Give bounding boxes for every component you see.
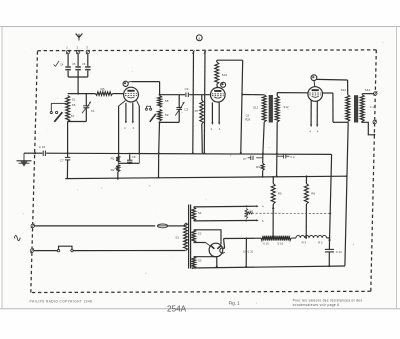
label R2b — [318, 241, 323, 245]
wire terminal1 to C4 — [67, 54, 69, 66]
valve V4 heater loop — [220, 248, 225, 253]
chassis border top (dashed) — [38, 49, 377, 52]
label C15 — [39, 145, 46, 149]
svg-text:C8: C8 — [132, 155, 136, 159]
node IFT1 tap — [241, 94, 243, 96]
svg-text:∿: ∿ — [13, 233, 22, 245]
label S14 — [365, 88, 371, 92]
capacitor C2 arrow — [175, 102, 185, 116]
text 254A (cut by page edge) — [167, 305, 187, 314]
wire antenna feed down — [77, 77, 79, 94]
svg-text:S1: S1 — [175, 236, 179, 240]
wire HT feed 2 — [203, 51, 206, 153]
svg-text:PHILIPS RADIO COPYRIGHT 194: PHILIPS RADIO COPYRIGHT 1948 — [30, 300, 93, 304]
label S6 — [72, 103, 76, 107]
wire mains line 2b — [73, 250, 185, 252]
wire V1 cathode — [119, 101, 126, 157]
node divider left — [245, 237, 247, 239]
wire ground to border — [24, 152, 35, 154]
label S8 — [165, 99, 169, 103]
coil S12 (IFT1 secondary) — [275, 96, 279, 122]
label C14 — [336, 250, 342, 254]
divider resistor R3b-R2b — [291, 235, 327, 238]
wire C3 to V2 grid — [189, 94, 210, 96]
wire R5 bottom — [272, 204, 274, 238]
coil S11 (IFT1 primary) — [262, 95, 266, 122]
svg-text:C7: C7 — [60, 158, 64, 162]
svg-text:C2: C2 — [184, 107, 188, 111]
coil S10 (osc coil) — [215, 62, 219, 84]
valve V2 heater lead b — [218, 103, 220, 124]
label V2 heater b — [219, 127, 221, 131]
wire mains line 1 — [34, 225, 155, 227]
svg-text:S 16: S 16 — [277, 241, 283, 245]
resistor R2 — [116, 165, 119, 172]
ground symbol — [17, 153, 32, 166]
capacitor C14 plates — [325, 249, 334, 252]
capacitor C8 plates — [127, 160, 132, 162]
wire S8/C2 top link — [160, 94, 180, 96]
capacitor C7b tail — [248, 157, 251, 159]
resistor R9 (hum balance) — [245, 208, 248, 218]
wire mains line 2a — [34, 250, 58, 252]
capacitor C2 (tuning) plates — [176, 108, 182, 110]
wire V1 screen — [137, 101, 140, 154]
capacitor C14 top lead — [328, 241, 330, 249]
node antenna-coil junction — [77, 93, 79, 95]
svg-text:S3: S3 — [198, 259, 202, 263]
svg-text:S14: S14 — [365, 88, 371, 92]
AC mains symbol — [13, 233, 22, 245]
label terminal 3 — [86, 46, 88, 50]
wire R5 top — [272, 177, 274, 184]
node R3 on AVC bus — [262, 176, 264, 178]
label V3 heater a — [309, 129, 311, 133]
wire C6 down — [87, 71, 89, 77]
label point 6 — [262, 219, 264, 223]
capacitor C9b tail — [286, 155, 289, 157]
svg-text:S1: S1 — [72, 98, 76, 102]
svg-text:S4: S4 — [198, 211, 202, 215]
label C1 — [91, 109, 95, 113]
svg-text:254A: 254A — [167, 305, 187, 314]
wire heater arrow 6 — [246, 219, 259, 221]
node S11 tail on earth bus — [262, 153, 264, 155]
label S1p — [175, 236, 179, 240]
terminal mains 1 — [31, 224, 35, 228]
switch mains contact b — [71, 249, 73, 251]
label S4 — [198, 211, 202, 215]
coil S8 — [158, 96, 162, 108]
label R1 — [111, 157, 115, 161]
text Fig. 1 — [229, 301, 241, 306]
capacitor C1 arrow — [82, 101, 91, 113]
wire R4 top — [305, 176, 307, 183]
text French note line 1 — [293, 298, 363, 302]
valve V2 (mixer-osc) — [211, 88, 226, 103]
svg-text:R6: R6 — [101, 88, 105, 92]
wire R7 tail — [201, 124, 204, 153]
switch arm S1 — [54, 112, 62, 122]
wire S3 bottom corner — [192, 267, 194, 269]
label R4 — [311, 192, 315, 196]
capacitor C15 plates — [43, 151, 45, 156]
transformer primary S1p — [184, 223, 188, 251]
valve V2 heater arrow a — [211, 122, 213, 125]
label S7 — [71, 114, 75, 118]
label S10 — [222, 73, 228, 77]
antenna symbol — [76, 34, 83, 41]
label C13 — [370, 105, 376, 109]
wire S3 top to cathode — [194, 256, 217, 258]
text French note line 2 — [293, 303, 341, 307]
node S8 top — [159, 94, 161, 96]
valve V2 heater arrow b — [218, 122, 220, 125]
transformer rect-heater winding S3 — [192, 257, 196, 269]
svg-text:S7: S7 — [71, 114, 75, 118]
wire C8 stub right — [130, 154, 140, 164]
svg-text:Fig. 1: Fig. 1 — [229, 301, 241, 306]
capacitor C7b plates — [251, 156, 253, 160]
terminal 2 — [76, 50, 80, 54]
label terminal 1 — [66, 46, 68, 50]
wire S11 tail — [263, 122, 265, 163]
node R4 on AVC bus — [306, 175, 308, 177]
node V1 cathode on earth bus — [118, 152, 120, 154]
svg-text:C6: C6 — [82, 62, 86, 66]
valve V3 — [308, 87, 323, 102]
svg-text:S6: S6 — [72, 103, 76, 107]
svg-text:a: a — [198, 36, 200, 40]
wire heater supply bottom — [194, 220, 247, 222]
wire heater supply top — [194, 205, 247, 208]
valve V1 heater arrow a — [125, 121, 127, 124]
wire tuned circuit 1 bottom — [68, 121, 87, 123]
stray check mark — [54, 61, 60, 66]
arrow HT feed 1 — [192, 50, 195, 54]
chassis border right (dashed) — [371, 50, 377, 291]
label S16 — [277, 241, 283, 245]
valve V3 heater arrow a — [310, 125, 312, 128]
wire C2 bottom — [178, 109, 180, 122]
svg-text:R2: R2 — [111, 168, 115, 172]
wire V3 cap stem — [313, 81, 316, 87]
svg-text:S9: S9 — [165, 113, 169, 117]
label S13 — [341, 88, 347, 92]
svg-text:C1: C1 — [91, 109, 95, 113]
wire S2 bottom to anode 2 — [194, 243, 210, 246]
node R5 on AVC bus — [272, 176, 274, 178]
switch arm S8 — [150, 114, 156, 122]
svg-text:R28: R28 — [245, 118, 251, 122]
node S12 tail on earth bus — [276, 153, 278, 155]
svg-text:S11: S11 — [253, 105, 258, 109]
switch mains contact a — [57, 249, 59, 251]
svg-text:Pour les valeurs des résis: Pour les valeurs des résistances et des — [293, 298, 363, 302]
label C3 — [185, 87, 189, 91]
svg-text:S13: S13 — [341, 88, 347, 92]
node S9 tail on AVC bus — [158, 177, 160, 179]
label R3 — [256, 165, 260, 169]
label R7 — [195, 109, 199, 113]
svg-text:C4: C4 — [60, 63, 64, 67]
svg-text:S10: S10 — [222, 73, 228, 77]
label S12 — [283, 105, 289, 109]
switch wave-band contact a — [50, 111, 52, 113]
node divider-A junction — [329, 239, 331, 241]
switch stub a — [51, 103, 66, 111]
label V3 heater b — [317, 129, 319, 133]
divider winding S15-S16 — [261, 236, 291, 241]
label R9 — [250, 209, 254, 213]
wire V3 cap to S13 — [317, 79, 348, 94]
node earth terminal on border — [34, 152, 36, 154]
label C5 — [72, 62, 76, 66]
node HT feed 2 on earth bus — [203, 152, 205, 154]
label R3b — [302, 241, 307, 245]
svg-text:R7: R7 — [195, 109, 199, 113]
wire S1 tail — [67, 122, 69, 157]
wire S14 bottom L-link — [362, 122, 374, 135]
label C8 — [132, 155, 136, 159]
wire AVC bus — [65, 176, 346, 178]
wire S1 top — [68, 93, 96, 95]
label S9 — [165, 113, 169, 117]
capacitor C9b lead — [277, 155, 283, 157]
node C16 on bottom bus — [245, 266, 247, 268]
svg-text:S8: S8 — [165, 99, 169, 103]
label C4 — [60, 63, 64, 67]
svg-text:R5: R5 — [278, 192, 282, 196]
mechanical link (dashed) — [248, 212, 330, 214]
wire S12 to V3 grid — [277, 93, 308, 96]
switch contact c — [145, 108, 147, 110]
switch contact d — [150, 108, 152, 110]
wire tuned circuit 2 bottom — [160, 121, 180, 123]
valve V2 top cap — [221, 82, 226, 87]
label S15 — [263, 241, 269, 245]
wire earth bus — [46, 153, 331, 154]
valve V1 top cap — [123, 81, 128, 86]
IFT2 core — [354, 95, 358, 122]
wire S9 tail — [159, 122, 160, 177]
coil S9 — [158, 109, 162, 121]
node S14 link on border — [373, 134, 375, 136]
node osc anode on earth bus — [240, 152, 242, 154]
label C9b — [290, 155, 295, 159]
wire S14 top to output terminal — [362, 94, 373, 95]
wire V4 cathode up — [223, 239, 226, 249]
wire V4 cathode stem — [216, 256, 218, 267]
node V1 screen on earth bus — [138, 153, 140, 155]
capacitor C1 (tuning) plates — [83, 106, 89, 108]
label terminal 2 — [76, 46, 78, 50]
coil S1 (aerial coil) — [66, 96, 70, 122]
svg-text:S12: S12 — [283, 105, 289, 109]
wire IFT1 primary top — [242, 94, 264, 96]
svg-text:C 15: C 15 — [39, 145, 46, 149]
wire HT feed 1 — [192, 51, 195, 153]
svg-text:C5: C5 — [72, 62, 76, 66]
label heater b — [132, 126, 134, 130]
wire C2/C3 link — [179, 94, 185, 96]
label R6 — [101, 88, 105, 92]
node A at divider feed — [329, 212, 331, 214]
wire border to C15 — [35, 152, 42, 154]
capacitor C14 bottom lead — [328, 252, 330, 266]
capacitor C8 (cathode bypass) top lead — [129, 154, 131, 160]
valve V1 heater arrow b — [132, 121, 134, 124]
switch stub cd — [146, 106, 150, 108]
svg-text:S 15: S 15 — [263, 241, 269, 245]
wire terminal2 to C5 — [77, 54, 79, 66]
label C2 — [184, 107, 188, 111]
arrow R5 tap — [272, 205, 274, 209]
wire C4 down — [67, 71, 69, 77]
transformer HT winding S2 — [192, 230, 196, 243]
wire V4 cathode to divider — [224, 237, 247, 239]
wire B line (S13 tail) — [345, 122, 348, 266]
svg-text:R3: R3 — [256, 165, 260, 169]
node S9 bottom — [159, 121, 161, 123]
capacitor C7 plates — [65, 157, 70, 160]
label heater a — [124, 126, 126, 130]
valve V3 top cap — [311, 75, 317, 81]
wire S12 tail — [276, 122, 279, 176]
svg-text:R 2: R 2 — [318, 241, 323, 245]
capacitor C6 (aerial series cap) — [85, 66, 90, 70]
node S1 tail on earth bus — [67, 152, 69, 154]
label R5 — [278, 192, 282, 196]
wire R2 to AVC bus — [117, 172, 119, 179]
scan speckle noise — [22, 42, 383, 304]
resistor R6 (grid series) — [96, 92, 113, 96]
fuse — [157, 224, 167, 228]
svg-text:condensateurs voir page 6.: condensateurs voir page 6. — [293, 303, 341, 307]
svg-text:C 13: C 13 — [370, 105, 376, 109]
valve V3 heater lead b — [316, 100, 318, 125]
svg-text:R 3: R 3 — [302, 241, 307, 245]
svg-text:C3: C3 — [185, 87, 189, 91]
page bottom edge — [0, 308, 400, 310]
wire HT- bottom bus — [192, 266, 345, 268]
wire R3 to AVC bus — [262, 170, 264, 177]
wire R4 bottom — [305, 204, 307, 238]
wire S10 top — [217, 60, 243, 62]
wire C1 branch top — [85, 94, 87, 106]
terminal detector out 1 — [373, 91, 377, 95]
label C6 — [82, 62, 86, 66]
switch wave-band contact b — [56, 111, 58, 113]
node heater top junction — [245, 205, 247, 207]
svg-text:C7: C7 — [243, 157, 247, 161]
capacitor C16 (electrolytic) — [245, 238, 247, 266]
valve V2 heater lead a — [211, 102, 213, 123]
wire R1-R2 mid to C8 — [118, 162, 130, 164]
wire R6 to V1 grid — [113, 93, 124, 95]
arrow HT feed 2 — [203, 50, 206, 54]
terminal mains 2 — [30, 248, 34, 252]
label R28 — [245, 118, 251, 122]
label C7b — [243, 157, 247, 161]
text PHILIPS RADIO COPYRIGHT — [30, 300, 93, 304]
wire R7 top — [201, 95, 203, 100]
label point 4 — [262, 205, 264, 209]
label S3 — [198, 259, 202, 263]
node HT feed 1 on earth bus — [192, 152, 194, 154]
capacitor C5 (aerial series cap) — [75, 66, 80, 70]
svg-text:R1: R1 — [111, 157, 115, 161]
valve V3 heater lead a — [310, 100, 312, 126]
label V2 heater a — [211, 127, 213, 131]
mechanical link squiggle — [247, 212, 253, 214]
valve V1 heater lead b — [132, 103, 134, 122]
wire osc anode vertical — [241, 60, 243, 153]
label S11 — [253, 105, 258, 109]
capacitor C9b plates — [284, 154, 286, 158]
valve V1 — [124, 87, 139, 102]
svg-text:100 1.10: 100 1.10 — [243, 250, 254, 254]
terminal detector out 2 — [373, 120, 377, 124]
capacitor C3 plates — [186, 92, 188, 97]
valve V1 heater lead a — [125, 103, 127, 122]
node S9 tail on earth bus — [158, 152, 160, 154]
wire V1 cap to S8 — [128, 82, 160, 95]
node R5 on divider — [272, 237, 274, 239]
coil S13 (IFT2 primary) — [346, 95, 350, 122]
node V4 stem on HT- bus — [216, 266, 218, 268]
page left edge — [1, 27, 3, 309]
capacitor C8 bottom lead — [129, 162, 131, 163]
wire antenna bus — [68, 76, 88, 78]
terminal 1 — [66, 50, 70, 54]
chassis border bottom (dashed) — [31, 291, 371, 292]
node R4 on divider — [305, 237, 307, 239]
terminal label a — [196, 35, 202, 41]
resistor R7 (osc grid leak) — [200, 100, 204, 124]
wire terminal3 to C6a — [87, 54, 89, 66]
transformer core line 2 — [190, 205, 192, 269]
node heater bottom junction — [245, 220, 247, 222]
node S12 tail on AVC bus — [276, 175, 278, 177]
wire divider lead — [246, 237, 261, 239]
wire A line (HT rail) — [330, 154, 332, 240]
wire C1 bottom — [85, 108, 87, 122]
svg-text:C 14: C 14 — [336, 250, 342, 254]
wire heater arrow 4 — [246, 205, 258, 207]
label R2 — [111, 168, 115, 172]
terminal 3 — [86, 50, 90, 54]
switch mains bridge — [59, 246, 73, 249]
label S1 — [72, 98, 76, 102]
wire S10 to V2 — [216, 84, 219, 87]
svg-text:C 2: C 2 — [290, 155, 295, 159]
svg-text:R6: R6 — [311, 192, 315, 196]
wire C2 top — [178, 95, 180, 107]
capacitor C4 (aerial series cap) — [65, 66, 70, 70]
node C14 on bottom bus — [328, 265, 330, 267]
node C8 junction — [129, 162, 131, 164]
wire divider to A line — [327, 238, 330, 241]
wire C5 down — [77, 71, 79, 77]
page top edge — [0, 26, 400, 28]
resistor R1 (cathode bias) — [116, 156, 119, 162]
node S14 bottom — [361, 121, 363, 123]
wire fuse to primary — [168, 223, 186, 226]
svg-text:S2: S2 — [198, 231, 202, 235]
valve V4 (rectifier) — [209, 243, 223, 257]
node R2 on AVC bus — [117, 178, 119, 180]
